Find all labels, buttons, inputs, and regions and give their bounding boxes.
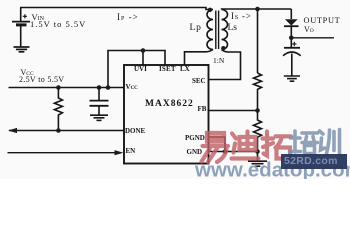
wire PGND jog	[209, 137, 226, 152]
diode D1 cathode bar	[284, 25, 299, 27]
transformer secondary phasing dot	[221, 46, 225, 50]
wire Vcc line	[9, 87, 125, 89]
label VIN range	[30, 19, 86, 29]
wire rectifier node to diode	[290, 9, 292, 19]
label OUTPUT	[304, 16, 341, 25]
wire LX to primary bottom	[185, 50, 214, 66]
ground under C2	[284, 76, 300, 81]
pin label Vcc	[126, 83, 138, 91]
pin label PGND	[185, 134, 205, 142]
ground under C1	[90, 115, 108, 120]
part number MAX8622	[145, 99, 194, 109]
node Vcc-R3 junction	[56, 85, 61, 90]
wire battery to ground	[20, 26, 22, 47]
pin label FB	[198, 105, 207, 113]
diode D1 cathode wire	[290, 27, 292, 48]
label Lp	[190, 23, 202, 33]
watermark char tuo (red)	[263, 132, 292, 159]
arrowhead DONE	[8, 128, 17, 133]
wire FB to divider	[209, 110, 258, 112]
transformer primary phasing dot	[208, 8, 212, 12]
watermark char yi (red)	[202, 133, 229, 162]
label Ip current	[117, 12, 139, 22]
wire DONE line	[9, 130, 124, 132]
wire divider to ground	[257, 152, 259, 162]
node PGND-GND junction	[223, 149, 228, 154]
wire UVI ISET rail	[108, 51, 165, 88]
node rail-UVI junction	[141, 48, 146, 53]
capacitor C2 output	[283, 42, 301, 76]
node Vcc-rail junction	[106, 85, 111, 90]
resistor R2 lower divider	[254, 111, 262, 152]
wire UVI pin	[142, 51, 144, 66]
pin label LX	[180, 65, 190, 73]
node divider-GND junction	[255, 149, 260, 154]
pin label EN	[126, 147, 136, 155]
label Vo	[304, 25, 314, 34]
pin label UVI	[134, 65, 147, 73]
node FB junction	[255, 108, 260, 113]
pin label ISET	[159, 65, 176, 73]
label Vcc range	[19, 75, 64, 84]
transformer T1 secondary winding Ls	[222, 10, 228, 50]
arrowhead EN	[115, 150, 124, 155]
label Ls	[228, 23, 238, 33]
pin label GND	[187, 148, 203, 156]
diode D1 triangle	[285, 19, 298, 25]
capacitor C1	[90, 88, 109, 116]
wire divider top	[257, 9, 259, 73]
label Is current	[231, 11, 252, 21]
resistor R1 upper divider	[254, 73, 262, 111]
watermark char di (red)	[232, 132, 259, 159]
wire VIN top rail	[20, 8, 213, 10]
node Vcc-C1 junction	[97, 85, 102, 90]
battery B1	[12, 14, 30, 25]
watermark char pei (blue)	[290, 131, 318, 154]
node diode-Vo junction	[289, 36, 294, 41]
node R3-DONE junction	[56, 128, 61, 133]
ground under divider	[248, 161, 267, 166]
wire secondary bottom to SEC pin	[209, 50, 241, 80]
transformer T1 primary winding Lp	[207, 10, 213, 50]
ground under battery	[14, 47, 30, 52]
watermark char xun (blue)	[320, 130, 340, 155]
label Vcc	[21, 68, 34, 77]
pin label DONE	[125, 127, 145, 135]
resistor R3 pull-up	[54, 88, 62, 131]
transformer T1 core	[216, 11, 219, 50]
label VIN	[32, 12, 44, 22]
wire EN line	[8, 152, 116, 154]
wire GND line	[209, 151, 258, 153]
pin label SEC	[192, 77, 206, 85]
wire battery to rail	[20, 8, 22, 22]
watermark 52RD.com badge	[281, 154, 347, 169]
watermark chinese characters	[0, 0, 350, 179]
IC U1 MAX8622 body	[124, 65, 209, 164]
wire secondary top to rectifier node	[222, 8, 292, 11]
node secondary-divider junction	[255, 7, 260, 12]
wire Vo output	[291, 37, 334, 39]
label turns ratio 1:N	[213, 56, 224, 65]
